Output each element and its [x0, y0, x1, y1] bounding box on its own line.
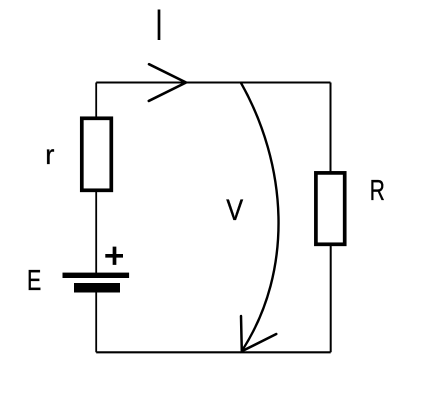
wire right upper (top node to resistor R) [330, 83, 332, 173]
resistor r (internal resistance, box symbol) [82, 118, 112, 190]
voltage V arc across R [241, 82, 279, 351]
wire left upper (top node to resistor r) [95, 83, 97, 119]
current arrow head on top wire [149, 64, 186, 101]
label I (current, drawn bar) [158, 10, 161, 41]
wire bottom (bottom return node) [96, 351, 331, 353]
svg-text:R: R [370, 175, 385, 207]
wire top (node between battery + and R top) [96, 82, 330, 84]
battery negative plate (short thick) [74, 283, 120, 293]
svg-text:V: V [226, 193, 244, 226]
svg-text:r: r [45, 139, 54, 170]
wire right lower (resistor R to bottom node) [330, 245, 332, 353]
battery positive plate (long thin) [63, 273, 130, 278]
wire left middle (resistor r to battery + plate) [95, 191, 97, 275]
battery polarity plus sign [105, 247, 123, 265]
voltage arrow head at bottom [241, 316, 276, 351]
wire left lower (battery - plate to bottom node) [95, 291, 97, 352]
svg-text:E: E [27, 265, 41, 297]
resistor R (load, box symbol) [316, 173, 345, 244]
